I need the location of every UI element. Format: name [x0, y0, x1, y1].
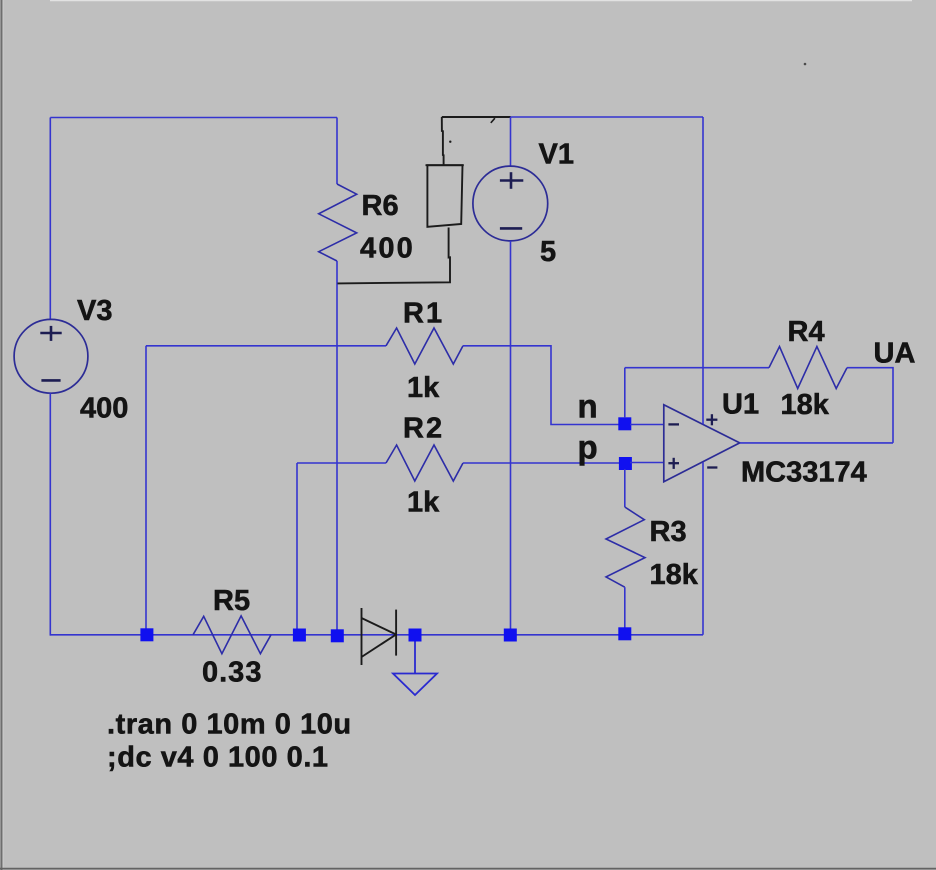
resistor R1 — [386, 328, 463, 364]
wire R2 right — [463, 462, 620, 464]
resistor R6 — [319, 184, 357, 261]
node n square — [618, 417, 631, 430]
op-amp power plus — [706, 414, 717, 425]
svg-text:5: 5 — [540, 236, 556, 268]
svg-text:R6: R6 — [362, 190, 399, 222]
wire R4 left — [625, 367, 769, 369]
svg-text:UA: UA — [874, 338, 916, 370]
svg-text:R1: R1 — [403, 298, 444, 330]
wire R6 bottom riser — [336, 261, 338, 635]
wire opamp V- riser — [702, 462, 704, 635]
wire R4 right — [847, 368, 893, 443]
wire R6 top stub — [336, 118, 338, 185]
wire R1 left — [146, 345, 386, 347]
V3 minus sign — [41, 379, 60, 382]
wire V1 bottom stem — [510, 241, 512, 635]
black dot speck — [449, 141, 451, 143]
black box resistor — [426, 165, 464, 227]
op-amp U1 triangle — [664, 405, 740, 482]
svg-text:0.33: 0.33 — [202, 657, 262, 689]
voltage source V3 circle — [14, 319, 88, 393]
junction square bottom 6 — [618, 627, 631, 640]
wire p down to R3 — [624, 469, 626, 507]
wire V3 bottom stem — [49, 393, 51, 635]
ground symbol — [393, 674, 437, 696]
junction square bottom 5 — [504, 629, 517, 642]
wire opamp output — [740, 442, 893, 444]
op-amp input plus — [668, 458, 679, 469]
wire R1 left riser — [145, 346, 147, 635]
wire n to opamp — [630, 424, 664, 426]
junction square bottom 2 — [293, 629, 306, 642]
node p square — [619, 457, 632, 470]
svg-text:;dc v4 0 100 0.1: ;dc v4 0 100 0.1 — [107, 742, 329, 774]
resistor R2 — [386, 445, 463, 481]
svg-text:18k: 18k — [781, 389, 830, 421]
resistor R3 — [606, 507, 645, 587]
junction square bottom 3 — [331, 629, 344, 642]
svg-text:1k: 1k — [407, 487, 440, 519]
V1 plus sign — [500, 172, 523, 189]
junction square bottom 4 — [409, 629, 422, 642]
svg-text:U1: U1 — [722, 389, 759, 421]
wire V3 top stem — [49, 118, 51, 320]
svg-text:V1: V1 — [539, 139, 574, 171]
wire bottom bus — [50, 634, 703, 636]
black tick near junction — [491, 118, 495, 123]
wire R2 left riser — [296, 463, 298, 635]
window border top — [50, 0, 912, 2]
svg-text:MC33174: MC33174 — [741, 457, 867, 489]
V3 plus sign — [40, 326, 61, 341]
svg-text:400: 400 — [80, 393, 128, 425]
svg-text:.tran 0 10m 0 10u: .tran 0 10m 0 10u — [107, 709, 352, 741]
svg-text:n: n — [578, 388, 598, 425]
dot speck top right — [804, 63, 807, 66]
wire top-left V3 to R6 — [50, 117, 337, 119]
svg-text:18k: 18k — [650, 559, 699, 591]
diode black — [362, 608, 397, 665]
junction square bottom 1 — [140, 628, 153, 641]
svg-text:R2: R2 — [403, 413, 444, 445]
svg-text:R3: R3 — [650, 516, 687, 548]
wire top-right V1 to opamp riser — [511, 116, 704, 118]
ground stub — [414, 635, 416, 674]
black wire box to top junction — [442, 117, 511, 165]
svg-text:1k: 1k — [407, 372, 440, 404]
svg-text:R5: R5 — [213, 585, 250, 617]
black wire box bottom to R6 — [338, 228, 451, 284]
wire opamp V+ riser — [702, 117, 704, 424]
resistor R5 — [193, 616, 271, 654]
svg-text:R4: R4 — [788, 316, 825, 348]
wire R1 right — [463, 346, 620, 425]
wire n up to R4 — [624, 368, 626, 418]
resistor R4 — [769, 347, 847, 389]
svg-text:V3: V3 — [77, 295, 112, 327]
wire R3 bottom — [624, 587, 626, 635]
V1 minus sign — [500, 227, 522, 230]
voltage source V1 circle — [473, 166, 548, 241]
op-amp power minus — [707, 466, 717, 468]
op-amp input minus — [668, 423, 679, 425]
svg-text:p: p — [578, 429, 598, 466]
wire V1 top stem — [510, 117, 512, 166]
window border bottom — [0, 868, 936, 870]
wire p to opamp — [630, 462, 664, 464]
wire R2 left — [297, 462, 386, 464]
window border left — [2, 0, 4, 870]
svg-text:400: 400 — [360, 233, 415, 265]
